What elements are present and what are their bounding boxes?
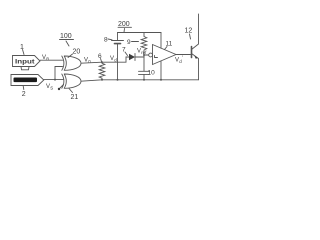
battery 8 [117,33,119,41]
transistor 12 collector [192,14,199,50]
emitter arrowhead [194,56,198,59]
inverting input bubble of op-amp 11 [149,53,153,57]
label 21 [71,94,79,101]
label 200 (control block) [118,21,130,28]
resistor 9 [141,33,147,56]
wire from diode 7 cathode to node Vref [135,55,144,57]
label 9 [127,39,131,46]
lead line from label 1 to input terminal [23,50,25,55]
label 20 [73,49,81,56]
junction of op-amp lead on bottom wire [160,79,162,81]
lead line from label 20 to gate 20 [68,54,73,58]
label 6 [98,53,102,60]
underline of label 200 [118,26,132,28]
dark text bar inside terminal 2 [14,78,38,83]
svg-text:6: 6 [98,53,102,60]
underline of label 100 [60,39,74,41]
XOR gate 21 [62,74,64,88]
svg-text:12: 12 [185,28,193,35]
lead line from label 21 to gate 21 [69,89,73,93]
lead line from label 9 to resistor 9 [132,41,139,43]
minus mark at inverting input inside op-amp 11 [155,56,158,58]
lead line from label 6 to resistor 6 [101,59,102,62]
wire node Vref to op-amp input [144,54,149,56]
svg-text:': ' [182,56,183,62]
transistor 12 [191,47,193,58]
capacitor 10 [143,55,145,71]
svg-text:20: 20 [73,49,81,56]
lead line from label 7 to diode 7 [125,52,128,56]
svg-text:0: 0 [88,59,91,64]
node label VB [42,55,49,62]
wire op-amp output to transistor 12 base [176,54,191,56]
svg-text:2: 2 [22,91,26,98]
wire VB from terminal 1 to gate 20 input 1 [40,59,63,61]
label 7 [122,47,126,54]
lead line from label 2 to reference terminal [22,86,25,90]
label 100 (phase comparator block) [60,33,72,40]
junction of resistor 6 on V0 wire [101,61,103,63]
label 2 [22,91,26,98]
node label Vd' [175,56,183,65]
junction of capacitor 10 on bottom wire [143,79,145,81]
svg-text:21: 21 [71,94,79,101]
label 10 [148,70,156,77]
node label VS [46,84,53,91]
label 12 [185,28,193,35]
transistor 12 emitter [192,54,199,80]
terminal dot at gate 21 lower input stub [58,88,60,90]
lead line from label 100 [66,41,69,46]
svg-text:9: 9 [127,39,131,46]
wire V0 from gate 20 output to diode 7 [81,57,129,63]
junction at node Vref [143,54,145,56]
text Input [15,59,35,66]
svg-text:S: S [50,86,53,91]
node label Vd [110,56,117,63]
lead line from label 8 to battery 8 [108,38,112,41]
junction on VS wire [54,79,56,81]
resistor 6 (between V0 wire and bottom wire) [99,62,105,80]
bottom tab of input terminal 1 [21,67,29,70]
svg-text:Input: Input [15,59,35,66]
junction of resistor 6 on bottom wire [101,79,103,81]
svg-text:1: 1 [20,44,24,51]
input stub of gate 21 lower input [60,85,64,89]
input terminal 2 (reference tag) [11,75,44,86]
svg-text:100: 100 [60,33,72,40]
bottom wire from gate 21 output to transistor 12 emitter [81,80,199,81]
svg-text:B: B [46,57,49,62]
label 11 [166,41,173,48]
op-amp 11 positive supply lead [160,33,162,49]
label 1 [20,44,24,51]
top supply rail of block 200 [118,32,162,34]
op-amp 11 negative supply lead [160,61,162,80]
node label V0 [84,58,91,65]
lead line from label 12 to transistor 12 [190,34,191,39]
wire from battery 8 negative plate down to bottom wire [117,44,119,80]
wire VS from terminal 2 to gate 21 input 1 [44,79,64,81]
lead line from label 200 [123,29,126,33]
svg-text:8: 8 [104,37,108,44]
XOR gate 20 [62,56,64,70]
label 8 [104,37,108,44]
svg-text:10: 10 [148,70,156,77]
diode 7 [129,54,135,60]
input terminal 1 (Input tag) [13,56,41,67]
lead line from label 11 to op-amp [165,47,168,50]
node label Vref [137,49,147,56]
junction of battery wire on bottom wire [117,79,119,81]
branch wire from VS wire up to gate 20 input 2 [55,67,63,80]
op-amp 11 [153,45,177,65]
